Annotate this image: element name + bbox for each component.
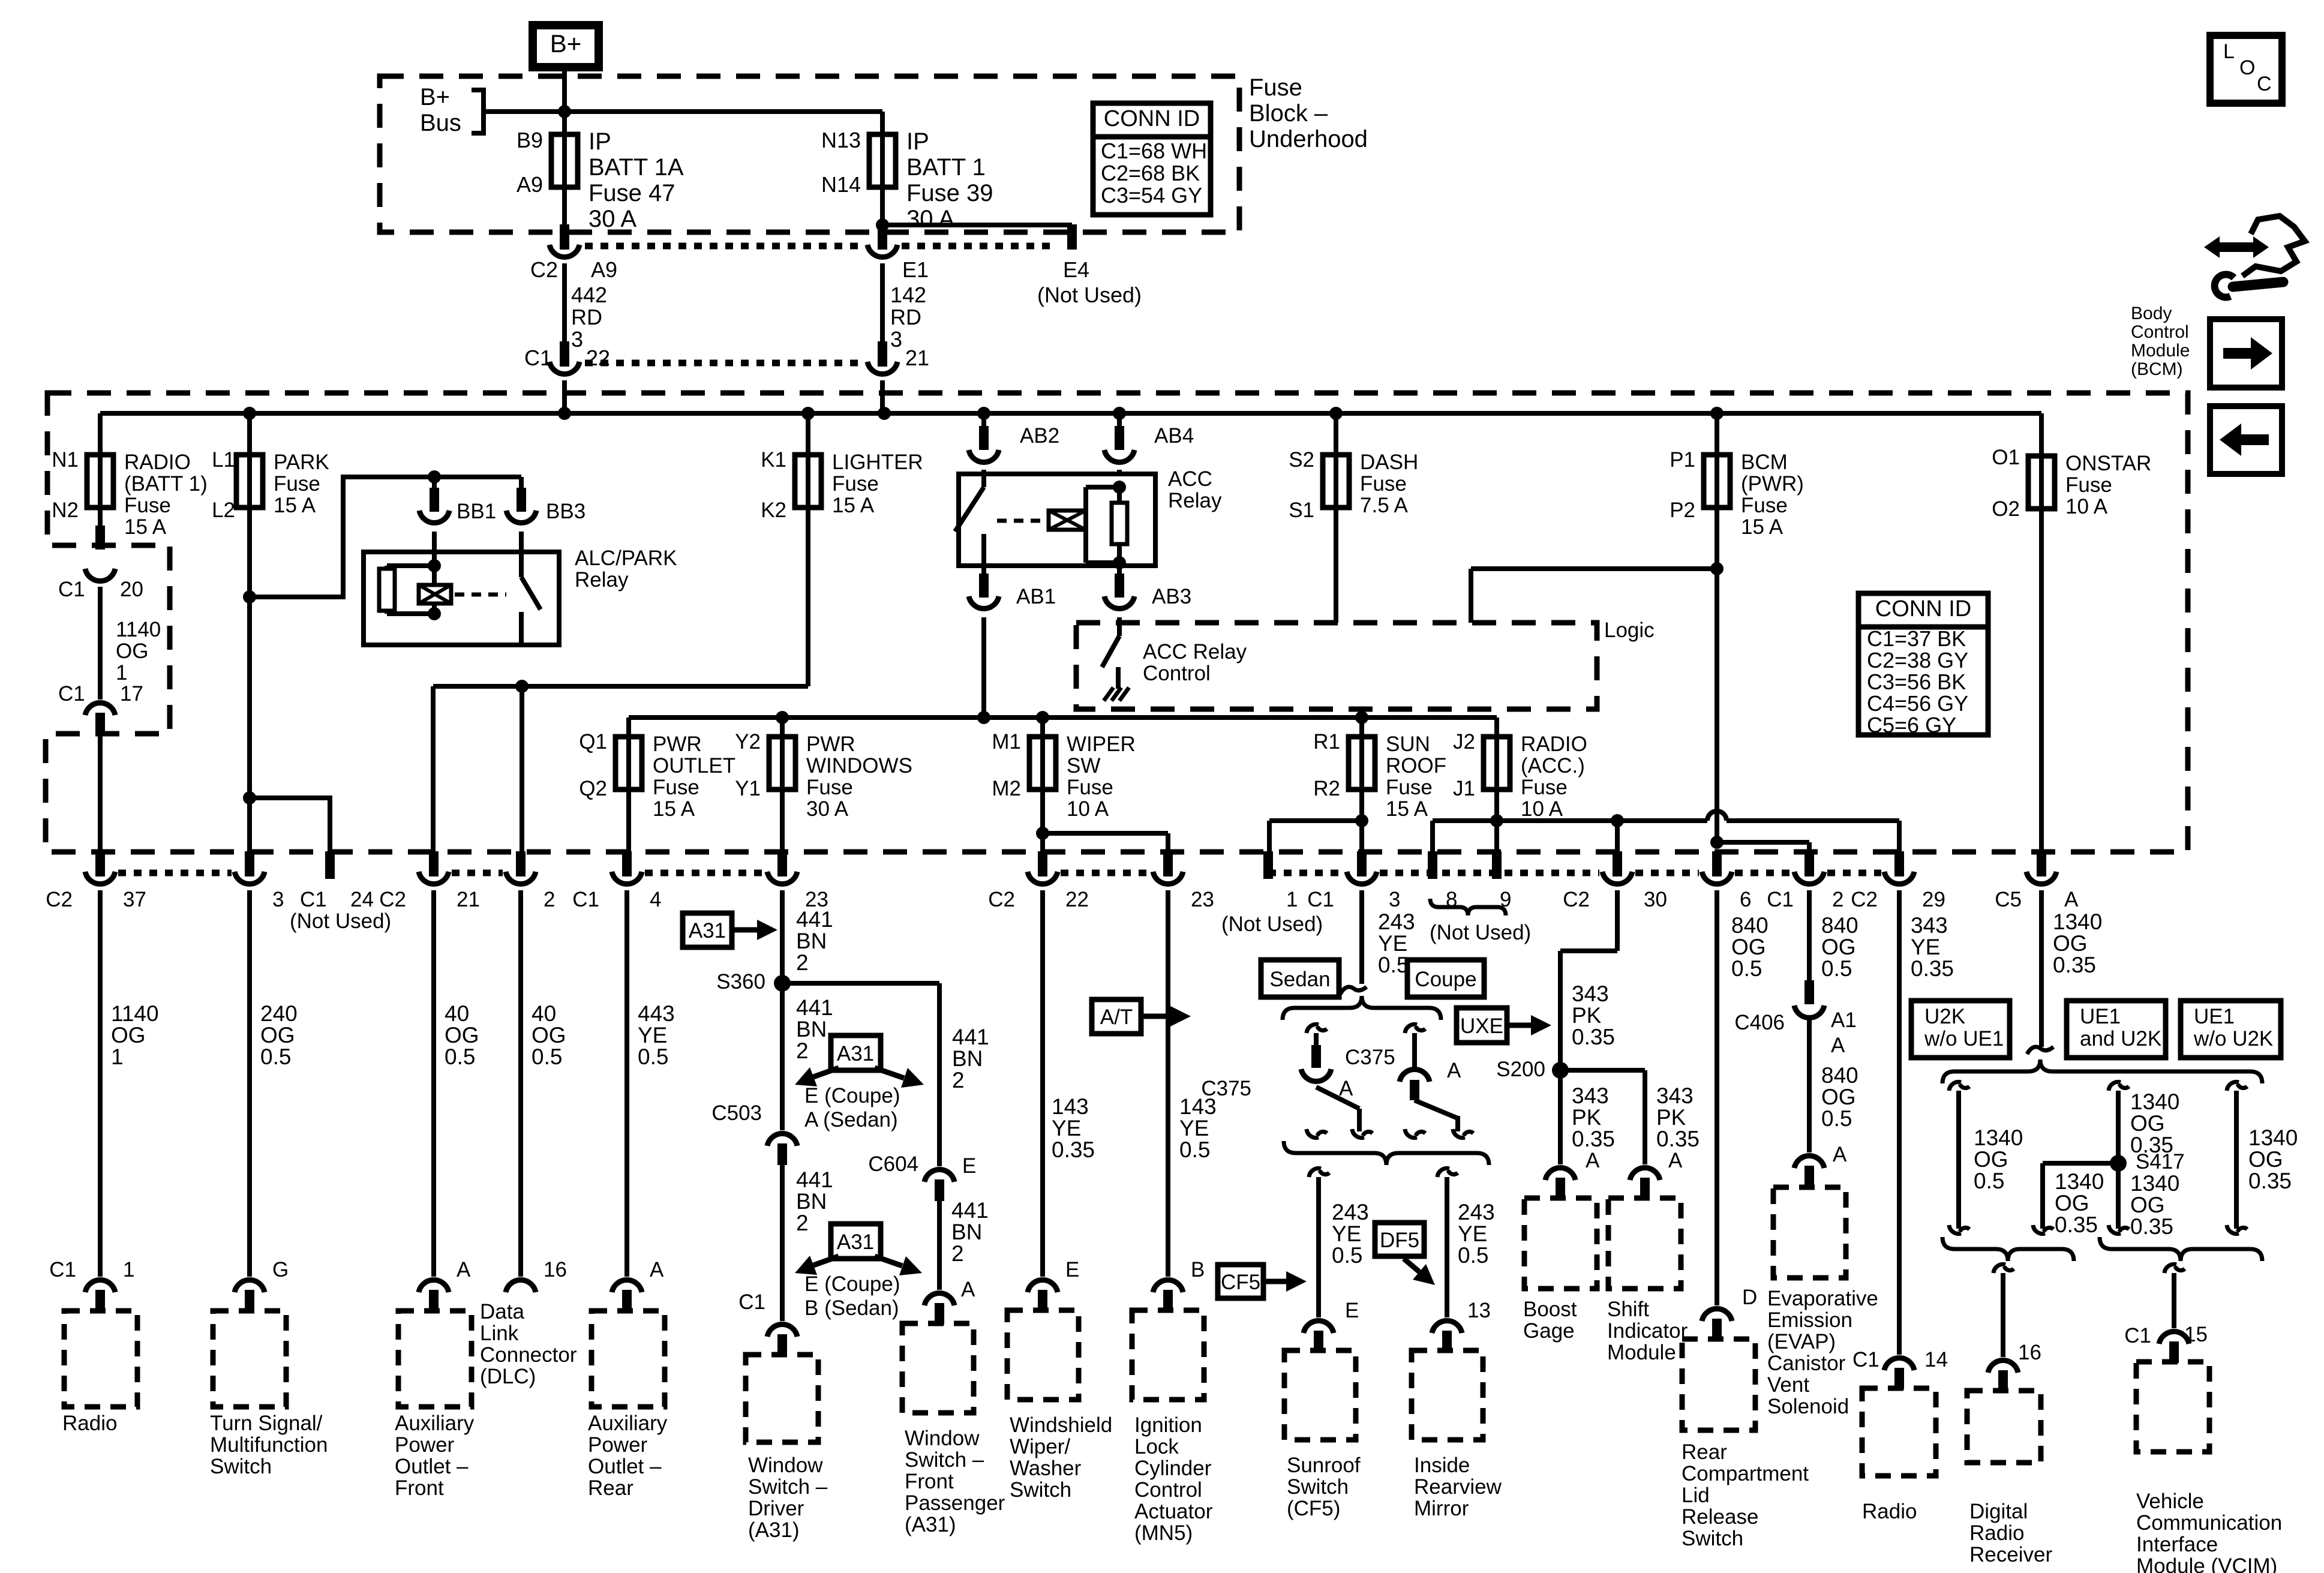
svg-text:243: 243 bbox=[1458, 1200, 1495, 1224]
svg-text:Front: Front bbox=[395, 1476, 444, 1500]
svg-text:E (Coupe): E (Coupe) bbox=[804, 1272, 900, 1296]
svg-text:Washer: Washer bbox=[1010, 1457, 1082, 1480]
svg-text:16: 16 bbox=[544, 1258, 567, 1281]
svg-text:Lid: Lid bbox=[1682, 1484, 1710, 1507]
svg-text:ROOF: ROOF bbox=[1386, 754, 1446, 778]
svg-text:22: 22 bbox=[586, 346, 610, 370]
svg-text:C1: C1 bbox=[58, 578, 85, 601]
svg-text:0.35: 0.35 bbox=[2053, 953, 2096, 977]
svg-text:1140: 1140 bbox=[111, 1001, 159, 1026]
svg-text:243: 243 bbox=[1378, 909, 1415, 934]
svg-text:C1: C1 bbox=[58, 682, 85, 706]
svg-text:0.5: 0.5 bbox=[1974, 1169, 2004, 1193]
svg-text:A: A bbox=[1833, 1143, 1847, 1166]
svg-text:1340: 1340 bbox=[2130, 1089, 2179, 1114]
svg-text:Coupe: Coupe bbox=[1415, 968, 1476, 991]
svg-text:YE: YE bbox=[1458, 1221, 1487, 1246]
svg-text:D: D bbox=[1742, 1286, 1757, 1309]
svg-text:Fuse: Fuse bbox=[653, 776, 699, 799]
svg-text:S1: S1 bbox=[1289, 499, 1314, 522]
svg-text:2: 2 bbox=[951, 1241, 964, 1266]
svg-text:Fuse: Fuse bbox=[274, 472, 320, 496]
svg-text:OG: OG bbox=[111, 1023, 146, 1047]
svg-text:DASH: DASH bbox=[1360, 451, 1418, 474]
svg-text:(CF5): (CF5) bbox=[1287, 1497, 1340, 1520]
svg-text:RD: RD bbox=[890, 305, 921, 329]
svg-text:(Not Used): (Not Used) bbox=[1221, 912, 1323, 936]
svg-text:343: 343 bbox=[1572, 981, 1609, 1006]
svg-text:K2: K2 bbox=[761, 499, 786, 522]
svg-text:2: 2 bbox=[952, 1068, 965, 1092]
svg-text:OG: OG bbox=[1974, 1147, 2008, 1172]
svg-text:BATT 1A: BATT 1A bbox=[588, 154, 684, 181]
svg-text:RADIO: RADIO bbox=[1521, 733, 1587, 756]
svg-text:E: E bbox=[1065, 1258, 1079, 1281]
svg-text:240: 240 bbox=[260, 1001, 298, 1026]
svg-text:C4=56 GY: C4=56 GY bbox=[1867, 691, 1968, 716]
svg-text:A (Sedan): A (Sedan) bbox=[804, 1108, 898, 1131]
svg-text:Interface: Interface bbox=[2136, 1533, 2218, 1556]
svg-text:IP: IP bbox=[588, 128, 611, 155]
svg-text:2: 2 bbox=[544, 888, 555, 911]
svg-text:30 A: 30 A bbox=[588, 206, 636, 232]
svg-text:Sunroof: Sunroof bbox=[1287, 1454, 1361, 1477]
svg-text:20: 20 bbox=[120, 578, 143, 601]
svg-text:840: 840 bbox=[1731, 913, 1768, 938]
svg-text:0.5: 0.5 bbox=[1458, 1243, 1488, 1268]
svg-text:C2: C2 bbox=[1563, 888, 1590, 911]
svg-text:C503: C503 bbox=[711, 1101, 762, 1125]
svg-text:R2: R2 bbox=[1313, 777, 1340, 800]
svg-text:S2: S2 bbox=[1289, 448, 1314, 472]
svg-text:Q1: Q1 bbox=[579, 730, 607, 754]
svg-text:16: 16 bbox=[2018, 1341, 2041, 1364]
svg-text:Solenoid: Solenoid bbox=[1767, 1395, 1849, 1418]
svg-text:OUTLET: OUTLET bbox=[653, 754, 735, 778]
svg-text:Cylinder: Cylinder bbox=[1134, 1457, 1212, 1480]
svg-text:Front: Front bbox=[905, 1470, 954, 1493]
svg-text:Digital: Digital bbox=[1969, 1500, 2028, 1523]
svg-text:1340: 1340 bbox=[1974, 1125, 2023, 1150]
svg-text:PK: PK bbox=[1572, 1105, 1602, 1130]
svg-text:Q2: Q2 bbox=[579, 777, 607, 800]
svg-text:N14: N14 bbox=[821, 172, 861, 197]
svg-text:L1: L1 bbox=[212, 448, 235, 472]
svg-text:15 A: 15 A bbox=[1386, 797, 1428, 821]
svg-text:1140: 1140 bbox=[116, 618, 161, 641]
svg-text:3: 3 bbox=[571, 327, 583, 352]
svg-text:ONSTAR: ONSTAR bbox=[2065, 452, 2151, 475]
svg-text:Windshield: Windshield bbox=[1010, 1413, 1112, 1437]
svg-text:6: 6 bbox=[1740, 888, 1751, 911]
svg-text:C2: C2 bbox=[379, 888, 406, 911]
svg-text:A: A bbox=[457, 1258, 471, 1281]
svg-text:143: 143 bbox=[1052, 1094, 1089, 1119]
svg-text:Relay: Relay bbox=[1168, 489, 1222, 512]
svg-text:15 A: 15 A bbox=[274, 494, 316, 517]
svg-text:Window: Window bbox=[905, 1427, 980, 1450]
svg-text:Radio: Radio bbox=[1862, 1500, 1917, 1523]
svg-text:30 A: 30 A bbox=[906, 206, 954, 232]
svg-text:840: 840 bbox=[1821, 1063, 1858, 1088]
svg-text:(Not Used): (Not Used) bbox=[1037, 283, 1142, 307]
svg-text:343: 343 bbox=[1911, 913, 1948, 938]
svg-text:Fuse: Fuse bbox=[1067, 776, 1113, 799]
svg-text:OG: OG bbox=[260, 1023, 295, 1047]
svg-text:CONN ID: CONN ID bbox=[1104, 106, 1200, 131]
svg-text:Outlet –: Outlet – bbox=[395, 1455, 469, 1478]
svg-text:A1: A1 bbox=[1831, 1008, 1857, 1032]
svg-text:0.35: 0.35 bbox=[1572, 1127, 1615, 1151]
svg-text:2: 2 bbox=[1832, 888, 1843, 911]
svg-text:C375: C375 bbox=[1201, 1077, 1251, 1100]
svg-text:C2: C2 bbox=[988, 888, 1015, 911]
svg-text:Rearview: Rearview bbox=[1414, 1475, 1502, 1499]
svg-text:443: 443 bbox=[638, 1001, 675, 1026]
svg-text:w/o UE1: w/o UE1 bbox=[1924, 1027, 2004, 1050]
svg-text:Switch: Switch bbox=[1287, 1475, 1349, 1499]
svg-text:15 A: 15 A bbox=[653, 797, 695, 821]
svg-text:3: 3 bbox=[272, 888, 284, 911]
svg-text:Control: Control bbox=[1143, 662, 1211, 685]
svg-text:10 A: 10 A bbox=[2065, 495, 2108, 518]
svg-text:0.35: 0.35 bbox=[2130, 1214, 2173, 1239]
svg-text:A: A bbox=[1586, 1149, 1600, 1172]
svg-text:(DLC): (DLC) bbox=[480, 1365, 536, 1388]
svg-text:0.35: 0.35 bbox=[1656, 1127, 1700, 1151]
svg-text:(EVAP): (EVAP) bbox=[1767, 1330, 1836, 1353]
svg-text:Multifunction: Multifunction bbox=[210, 1433, 328, 1457]
svg-text:0.5: 0.5 bbox=[260, 1044, 291, 1069]
svg-text:0.5: 0.5 bbox=[1731, 956, 1762, 981]
svg-text:C1: C1 bbox=[300, 888, 327, 911]
svg-text:21: 21 bbox=[905, 346, 929, 370]
svg-text:O: O bbox=[2239, 56, 2255, 79]
svg-text:C: C bbox=[2257, 73, 2272, 95]
svg-text:C375: C375 bbox=[1345, 1046, 1395, 1069]
svg-text:0.35: 0.35 bbox=[2248, 1169, 2292, 1193]
svg-text:AB1: AB1 bbox=[1016, 585, 1056, 608]
svg-text:1340: 1340 bbox=[2053, 909, 2102, 934]
svg-text:M2: M2 bbox=[992, 777, 1021, 800]
svg-text:L: L bbox=[2223, 40, 2235, 63]
svg-text:Vehicle: Vehicle bbox=[2136, 1490, 2204, 1513]
svg-text:PWR: PWR bbox=[806, 733, 855, 756]
svg-text:0.35: 0.35 bbox=[1911, 956, 1954, 981]
svg-text:29: 29 bbox=[1922, 888, 1945, 911]
svg-text:Window: Window bbox=[748, 1454, 823, 1477]
svg-text:Bus: Bus bbox=[420, 110, 461, 136]
svg-text:Relay: Relay bbox=[575, 568, 629, 592]
svg-text:441: 441 bbox=[952, 1025, 989, 1049]
svg-text:LIGHTER: LIGHTER bbox=[832, 451, 923, 474]
svg-text:C1: C1 bbox=[1767, 888, 1794, 911]
svg-text:Turn Signal/: Turn Signal/ bbox=[210, 1412, 323, 1435]
svg-text:G: G bbox=[272, 1258, 289, 1281]
svg-text:BB3: BB3 bbox=[546, 500, 585, 523]
svg-text:OG: OG bbox=[2248, 1147, 2283, 1172]
svg-text:2: 2 bbox=[796, 950, 809, 975]
svg-text:1340: 1340 bbox=[2055, 1169, 2104, 1194]
svg-text:U2K: U2K bbox=[1924, 1005, 1965, 1028]
svg-text:Vent: Vent bbox=[1767, 1373, 1809, 1397]
svg-text:21: 21 bbox=[457, 888, 480, 911]
svg-text:C1=68 WH: C1=68 WH bbox=[1101, 139, 1207, 163]
svg-text:15 A: 15 A bbox=[124, 515, 167, 539]
svg-text:Sedan: Sedan bbox=[1269, 968, 1330, 991]
svg-text:Link: Link bbox=[480, 1322, 519, 1345]
svg-text:Fuse: Fuse bbox=[1521, 776, 1568, 799]
svg-text:B (Sedan): B (Sedan) bbox=[804, 1296, 899, 1320]
svg-text:OG: OG bbox=[532, 1023, 566, 1047]
svg-text:Mirror: Mirror bbox=[1414, 1497, 1469, 1520]
svg-text:C1: C1 bbox=[738, 1290, 765, 1314]
svg-text:OG: OG bbox=[1821, 1085, 1856, 1109]
svg-text:442: 442 bbox=[571, 283, 607, 307]
svg-text:1: 1 bbox=[116, 661, 127, 685]
svg-text:Data: Data bbox=[480, 1300, 524, 1323]
svg-text:BATT 1: BATT 1 bbox=[906, 154, 986, 181]
svg-text:0.5: 0.5 bbox=[1332, 1243, 1362, 1268]
svg-text:Emission: Emission bbox=[1767, 1308, 1852, 1332]
svg-text:Connector: Connector bbox=[480, 1343, 577, 1367]
svg-text:7.5 A: 7.5 A bbox=[1360, 494, 1408, 517]
svg-text:A9: A9 bbox=[591, 257, 617, 282]
svg-text:B9: B9 bbox=[517, 128, 543, 152]
svg-text:OG: OG bbox=[445, 1023, 479, 1047]
svg-text:S200: S200 bbox=[1496, 1058, 1545, 1081]
svg-text:C1=37 BK: C1=37 BK bbox=[1867, 626, 1966, 651]
svg-text:RADIO: RADIO bbox=[124, 451, 191, 474]
svg-text:J1: J1 bbox=[1453, 777, 1475, 800]
svg-text:Module (VCIM): Module (VCIM) bbox=[2136, 1554, 2277, 1573]
svg-text:(PWR): (PWR) bbox=[1741, 472, 1804, 496]
svg-text:Rear: Rear bbox=[588, 1476, 633, 1500]
svg-text:0.5: 0.5 bbox=[1378, 953, 1409, 977]
svg-text:1340: 1340 bbox=[2130, 1171, 2179, 1196]
svg-text:YE: YE bbox=[1179, 1116, 1209, 1140]
svg-text:C3=56 BK: C3=56 BK bbox=[1867, 670, 1966, 694]
svg-text:343: 343 bbox=[1572, 1083, 1609, 1108]
svg-text:4: 4 bbox=[650, 888, 661, 911]
svg-text:CONN ID: CONN ID bbox=[1875, 596, 1971, 622]
svg-text:Boost: Boost bbox=[1523, 1298, 1577, 1321]
svg-text:(ACC.): (ACC.) bbox=[1521, 754, 1585, 778]
svg-text:w/o U2K: w/o U2K bbox=[2193, 1027, 2273, 1050]
svg-text:Communication: Communication bbox=[2136, 1511, 2282, 1535]
svg-text:C5=6 GY: C5=6 GY bbox=[1867, 713, 1956, 737]
svg-text:J2: J2 bbox=[1453, 730, 1475, 754]
svg-text:(BATT 1): (BATT 1) bbox=[124, 472, 208, 496]
svg-text:BCM: BCM bbox=[1741, 451, 1788, 474]
svg-text:YE: YE bbox=[638, 1023, 667, 1047]
svg-text:C2=68 BK: C2=68 BK bbox=[1101, 161, 1200, 185]
svg-text:A31: A31 bbox=[837, 1042, 874, 1065]
svg-text:441: 441 bbox=[796, 1167, 833, 1192]
svg-text:S360: S360 bbox=[716, 970, 765, 993]
svg-text:(A31): (A31) bbox=[905, 1513, 956, 1536]
svg-text:Release: Release bbox=[1682, 1505, 1758, 1529]
svg-text:Switch: Switch bbox=[1682, 1527, 1743, 1550]
svg-text:441: 441 bbox=[796, 995, 833, 1020]
svg-text:Auxiliary: Auxiliary bbox=[395, 1412, 475, 1435]
svg-text:A: A bbox=[1339, 1077, 1353, 1100]
svg-text:C1: C1 bbox=[49, 1258, 76, 1281]
svg-text:37: 37 bbox=[123, 888, 146, 911]
svg-text:PWR: PWR bbox=[653, 733, 702, 756]
svg-text:0.5: 0.5 bbox=[1821, 956, 1852, 981]
svg-text:WINDOWS: WINDOWS bbox=[806, 754, 912, 778]
svg-text:2: 2 bbox=[796, 1038, 809, 1063]
svg-text:K1: K1 bbox=[761, 448, 786, 472]
svg-text:C604: C604 bbox=[868, 1152, 918, 1176]
svg-text:Receiver: Receiver bbox=[1969, 1543, 2052, 1566]
svg-text:Switch –: Switch – bbox=[905, 1448, 984, 1472]
svg-text:Control: Control bbox=[2131, 322, 2189, 342]
svg-text:Compartment: Compartment bbox=[1682, 1462, 1809, 1485]
svg-text:Indicator: Indicator bbox=[1607, 1319, 1688, 1343]
svg-text:840: 840 bbox=[1821, 913, 1858, 938]
svg-text:Passenger: Passenger bbox=[905, 1491, 1005, 1515]
svg-text:IP: IP bbox=[906, 128, 929, 155]
svg-text:24: 24 bbox=[350, 888, 374, 911]
svg-text:0.5: 0.5 bbox=[532, 1044, 562, 1069]
svg-text:PK: PK bbox=[1656, 1105, 1686, 1130]
svg-text:C5: C5 bbox=[1995, 888, 2022, 911]
svg-text:142: 142 bbox=[890, 283, 926, 307]
svg-text:(BCM): (BCM) bbox=[2131, 359, 2183, 379]
svg-text:Inside: Inside bbox=[1414, 1454, 1470, 1477]
svg-text:A31: A31 bbox=[837, 1230, 874, 1254]
svg-text:B+: B+ bbox=[420, 84, 450, 110]
svg-text:N13: N13 bbox=[821, 128, 861, 152]
svg-text:Switch: Switch bbox=[210, 1455, 272, 1478]
svg-text:10 A: 10 A bbox=[1521, 797, 1563, 821]
svg-text:N1: N1 bbox=[52, 448, 79, 472]
svg-text:AB2: AB2 bbox=[1020, 424, 1059, 448]
svg-text:WIPER: WIPER bbox=[1067, 733, 1136, 756]
svg-text:A9: A9 bbox=[517, 172, 543, 197]
svg-text:3: 3 bbox=[1389, 888, 1400, 911]
svg-text:1340: 1340 bbox=[2248, 1125, 2298, 1150]
svg-text:Power: Power bbox=[588, 1433, 648, 1457]
svg-text:Fuse 47: Fuse 47 bbox=[588, 180, 675, 206]
svg-text:B: B bbox=[1191, 1258, 1205, 1281]
svg-text:C1: C1 bbox=[1307, 888, 1334, 911]
svg-text:A: A bbox=[1831, 1034, 1845, 1057]
svg-text:R1: R1 bbox=[1313, 730, 1340, 754]
svg-text:1: 1 bbox=[123, 1258, 134, 1281]
svg-text:A: A bbox=[961, 1278, 975, 1301]
svg-text:441: 441 bbox=[951, 1198, 989, 1223]
svg-text:AB4: AB4 bbox=[1154, 424, 1194, 448]
svg-text:Lock: Lock bbox=[1134, 1435, 1179, 1458]
svg-text:0.5: 0.5 bbox=[638, 1044, 668, 1069]
svg-text:10 A: 10 A bbox=[1067, 797, 1109, 821]
svg-text:343: 343 bbox=[1656, 1083, 1694, 1108]
svg-text:Fuse: Fuse bbox=[2065, 473, 2112, 497]
svg-text:Control: Control bbox=[1134, 1478, 1202, 1502]
svg-text:Fuse: Fuse bbox=[1249, 74, 1302, 101]
svg-text:OG: OG bbox=[2053, 931, 2088, 956]
svg-text:Switch –: Switch – bbox=[748, 1475, 828, 1499]
svg-text:Fuse: Fuse bbox=[832, 472, 879, 496]
svg-text:Auxiliary: Auxiliary bbox=[588, 1412, 668, 1435]
svg-text:UE1: UE1 bbox=[2194, 1005, 2235, 1028]
svg-text:A: A bbox=[650, 1258, 664, 1281]
svg-text:1: 1 bbox=[1286, 888, 1298, 911]
svg-text:C1: C1 bbox=[572, 888, 599, 911]
svg-text:ACC Relay: ACC Relay bbox=[1143, 640, 1247, 664]
svg-text:UXE: UXE bbox=[1460, 1014, 1503, 1038]
svg-text:Body: Body bbox=[2131, 304, 2172, 323]
svg-text:Wiper/: Wiper/ bbox=[1010, 1435, 1070, 1458]
svg-text:RD: RD bbox=[571, 305, 602, 329]
svg-text:0.35: 0.35 bbox=[1572, 1025, 1615, 1049]
svg-text:P1: P1 bbox=[1670, 448, 1695, 472]
svg-text:Evaporative: Evaporative bbox=[1767, 1287, 1878, 1310]
svg-text:BN: BN bbox=[796, 1189, 827, 1214]
svg-text:BB1: BB1 bbox=[457, 500, 496, 523]
svg-text:BN: BN bbox=[796, 929, 827, 953]
svg-text:Y2: Y2 bbox=[735, 730, 761, 754]
svg-text:BN: BN bbox=[796, 1017, 827, 1041]
svg-text:OG: OG bbox=[2055, 1191, 2089, 1215]
svg-text:E1: E1 bbox=[902, 257, 929, 282]
svg-text:17: 17 bbox=[120, 682, 143, 706]
svg-text:Module: Module bbox=[1607, 1341, 1676, 1364]
svg-text:C2: C2 bbox=[530, 257, 558, 282]
svg-text:OG: OG bbox=[1731, 935, 1766, 959]
svg-text:YE: YE bbox=[1378, 931, 1407, 956]
svg-text:40: 40 bbox=[445, 1001, 469, 1026]
svg-text:YE: YE bbox=[1911, 935, 1940, 959]
svg-text:Fuse: Fuse bbox=[124, 494, 171, 517]
svg-text:Actuator: Actuator bbox=[1134, 1500, 1213, 1523]
svg-text:14: 14 bbox=[1924, 1348, 1948, 1371]
svg-text:Driver: Driver bbox=[748, 1497, 804, 1520]
svg-text:SW: SW bbox=[1067, 754, 1100, 778]
svg-text:A: A bbox=[2064, 888, 2079, 911]
svg-text:Shift: Shift bbox=[1607, 1298, 1649, 1321]
svg-text:E (Coupe): E (Coupe) bbox=[804, 1084, 900, 1107]
svg-text:L2: L2 bbox=[212, 499, 235, 522]
svg-text:OG: OG bbox=[1821, 935, 1856, 959]
svg-text:Canistor: Canistor bbox=[1767, 1352, 1846, 1375]
svg-text:0.5: 0.5 bbox=[1821, 1106, 1852, 1131]
svg-text:O2: O2 bbox=[1992, 497, 2020, 521]
svg-text:O1: O1 bbox=[1992, 446, 2020, 469]
svg-text:E: E bbox=[1345, 1299, 1359, 1322]
svg-text:Ignition: Ignition bbox=[1134, 1413, 1202, 1437]
svg-text:OG: OG bbox=[116, 640, 148, 663]
svg-text:0.5: 0.5 bbox=[1179, 1137, 1210, 1162]
svg-text:A31: A31 bbox=[689, 919, 726, 942]
svg-text:A: A bbox=[1668, 1149, 1683, 1172]
svg-text:243: 243 bbox=[1332, 1200, 1369, 1224]
svg-text:1: 1 bbox=[111, 1044, 124, 1069]
svg-text:Fuse: Fuse bbox=[806, 776, 853, 799]
svg-text:13: 13 bbox=[1467, 1299, 1491, 1322]
svg-text:and U2K: and U2K bbox=[2080, 1027, 2161, 1050]
svg-text:P2: P2 bbox=[1670, 499, 1695, 522]
svg-text:E: E bbox=[962, 1154, 976, 1178]
svg-text:Outlet –: Outlet – bbox=[588, 1455, 662, 1478]
svg-text:0.5: 0.5 bbox=[445, 1044, 475, 1069]
svg-text:30 A: 30 A bbox=[806, 797, 849, 821]
svg-text:Fuse: Fuse bbox=[1360, 472, 1407, 496]
svg-text:S417: S417 bbox=[2136, 1150, 2185, 1173]
